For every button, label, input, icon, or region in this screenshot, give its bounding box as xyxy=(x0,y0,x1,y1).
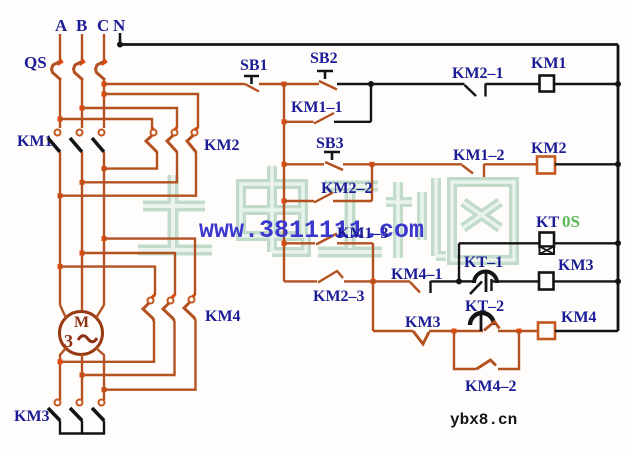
node mid rail KM2-3 xyxy=(371,279,376,284)
node crossover B xyxy=(80,180,85,185)
wire KT-2 to KM4 coil xyxy=(498,330,538,332)
svg-text:KM4: KM4 xyxy=(561,309,597,326)
wire SB1 to rail junction xyxy=(259,83,284,85)
node control feed tap xyxy=(102,82,107,87)
svg-text:SB1: SB1 xyxy=(240,57,268,74)
wire KM2 feed A xyxy=(60,119,152,128)
coil KM2 xyxy=(537,157,555,174)
svg-text:KM2: KM2 xyxy=(531,140,567,157)
node motor mid junction xyxy=(80,373,85,378)
contact KM2-1 xyxy=(465,84,486,97)
node KM2 feed tap C xyxy=(102,92,107,97)
contactor KM1 main pole 2 xyxy=(70,130,83,153)
node right rail row2 xyxy=(615,161,621,167)
motor terminal right xyxy=(96,305,104,318)
node KM4 feed tap A xyxy=(58,264,63,269)
wire mid rail corner to row4 xyxy=(373,330,413,332)
contactor KM1 main pole 3 xyxy=(92,130,105,153)
motor terminal left xyxy=(60,305,66,318)
wire column C middle xyxy=(103,152,105,305)
contactor KM4 main pole 2 xyxy=(163,295,175,322)
contactor KM1 main pole 1 xyxy=(48,130,61,153)
motor lead out mid xyxy=(81,355,83,401)
wire KM1 coil to right rail xyxy=(554,83,618,85)
wire KM2 feed C xyxy=(104,94,198,128)
node motor right junction xyxy=(102,387,107,392)
svg-text:SB3: SB3 xyxy=(316,135,344,152)
coil KM1 xyxy=(540,76,555,92)
node right rail KT row xyxy=(615,240,621,246)
wire column C upper xyxy=(103,80,105,128)
watermark green glyph 1 (tu) xyxy=(138,175,212,250)
contactor KM2 main pole 3 xyxy=(187,128,198,153)
wire control feed to SB1 xyxy=(104,83,245,85)
svg-text:ybx8.cn: ybx8.cn xyxy=(450,411,517,429)
contact KT-2 timed contact xyxy=(470,313,500,331)
svg-text:KM2–3: KM2–3 xyxy=(313,288,365,305)
wire KM1-1 branch vertical xyxy=(370,84,372,122)
contact KM4-1 xyxy=(373,281,431,293)
node rail KM1-3 xyxy=(282,241,287,246)
svg-text:KM1: KM1 xyxy=(531,55,567,72)
contactor KM4 main pole 3 xyxy=(184,295,196,321)
node rail KM2-2 xyxy=(282,199,287,204)
wire right N rail xyxy=(617,45,620,332)
contactor KM2 main pole 1 xyxy=(146,128,157,153)
wire column A middle xyxy=(59,152,61,305)
svg-text:KM4: KM4 xyxy=(205,308,241,325)
watermark green glyph 4 (zhi) xyxy=(386,178,446,258)
svg-text:KT: KT xyxy=(536,214,559,231)
watermark green glyph 2 (dian) xyxy=(241,166,306,252)
node KM4-2 branch left xyxy=(452,329,457,334)
wire KM2 coil to right rail xyxy=(555,163,618,165)
node rail KM1-1 xyxy=(282,119,287,124)
wire KM4 pole2 output xyxy=(82,321,175,375)
svg-text:B: B xyxy=(76,16,87,35)
wire column B upper xyxy=(81,80,83,128)
wire mid rail vertical xyxy=(372,243,374,331)
wire KM4 coil to right rail xyxy=(555,330,618,332)
switch QS pole 1 xyxy=(52,61,63,81)
wire top N rail xyxy=(120,43,618,46)
wire KT coil to right rail xyxy=(554,242,618,244)
contact KM2-3 xyxy=(284,271,373,283)
svg-text:KM2: KM2 xyxy=(204,137,240,154)
node right rail row1 xyxy=(615,81,621,87)
contact KM3 aux xyxy=(413,331,429,344)
svg-text:www.3811111.com: www.3811111.com xyxy=(199,216,424,245)
node KM4-2 branch right xyxy=(517,329,522,334)
svg-text:KM1–3: KM1–3 xyxy=(337,225,389,242)
wire KM2 pole2 output crossover to column B xyxy=(82,152,177,183)
contact KM1-3 xyxy=(284,234,373,245)
wire KM2 pole3 output crossover to column A xyxy=(60,152,196,196)
wire KM4-1 to KT branch xyxy=(431,280,460,282)
wire KM4 pole3 output xyxy=(104,320,196,390)
node left rail top xyxy=(282,82,287,87)
node crossover A xyxy=(58,193,63,198)
wire row2 to KM1-2 xyxy=(372,163,462,165)
wire left rail xyxy=(283,84,285,281)
node crossover C xyxy=(102,166,107,171)
wire KT branch vertical xyxy=(458,243,460,281)
wire KM2-2 branch vertical xyxy=(371,164,373,201)
motor M circle xyxy=(60,312,103,355)
wire rail to SB2 xyxy=(284,83,319,85)
wire KM3 aux to KT-2 xyxy=(429,330,483,332)
wire phase B lead-in xyxy=(81,34,83,60)
wire KT row xyxy=(459,242,540,244)
pushbutton SB3 xyxy=(324,152,343,170)
wire KM3 star bracket xyxy=(60,421,104,434)
svg-text:KM3: KM3 xyxy=(14,408,50,425)
wire KM1-2 to KM2 coil xyxy=(484,163,537,165)
wire SB2 to KM1-1 branch xyxy=(337,83,371,85)
node motor left junction xyxy=(58,359,63,364)
node KM2 feed tap A xyxy=(58,117,63,122)
wire KM3 coil to right rail xyxy=(554,280,619,282)
svg-text:KM3: KM3 xyxy=(405,314,441,331)
wire KM4 feed A xyxy=(60,267,155,295)
svg-text:KT–1: KT–1 xyxy=(464,254,503,271)
switch QS pole 3 xyxy=(96,61,107,81)
svg-text:M: M xyxy=(74,314,89,331)
switch QS pole 2 xyxy=(74,61,85,81)
node KT branch xyxy=(456,278,462,284)
node rail row2 xyxy=(282,162,287,167)
contact KT-1 timed contact xyxy=(459,271,539,295)
contact KM4-2 parallel branch xyxy=(454,331,519,369)
svg-text:KM3: KM3 xyxy=(558,257,594,274)
node KM4 feed tap C xyxy=(102,236,107,241)
node SB3 branch xyxy=(370,162,375,167)
node N corner dot xyxy=(117,42,123,48)
contact KM1-2 xyxy=(462,164,484,177)
wire rail to SB3 xyxy=(284,163,324,165)
svg-text:C: C xyxy=(97,16,109,35)
wire column A upper xyxy=(59,80,61,128)
coil KM3 xyxy=(539,273,554,290)
motor lead out left xyxy=(60,348,66,400)
pushbutton SB1 xyxy=(244,76,259,92)
motor lead out right xyxy=(96,348,104,400)
wire KM4 pole1 output xyxy=(61,321,154,362)
svg-text:KM4–2: KM4–2 xyxy=(465,378,517,395)
wire KM2-1 to KM1 coil xyxy=(486,83,540,85)
contactor KM3 main pole 1 xyxy=(48,400,61,421)
svg-text:QS: QS xyxy=(24,53,47,72)
wire KM2 pole1 output crossover to column C xyxy=(104,152,157,169)
svg-text:KM1–1: KM1–1 xyxy=(291,99,343,116)
node right rail KM3 row xyxy=(615,278,621,284)
timer coil KT xyxy=(540,233,555,255)
node SB2 branch xyxy=(368,81,374,87)
pushbutton SB2 xyxy=(317,71,337,90)
wire row1 to KM2-1 xyxy=(371,83,465,85)
svg-text:N: N xyxy=(113,16,126,35)
contactor KM3 main pole 2 xyxy=(70,400,83,421)
wire phase A lead-in xyxy=(59,34,61,60)
svg-text:KM1: KM1 xyxy=(17,133,53,150)
wire SB3 to KM2-2 branch xyxy=(343,163,372,165)
contact KM2-2 xyxy=(284,193,372,203)
svg-text:KM1–2: KM1–2 xyxy=(453,147,505,164)
wire KM4 feed C xyxy=(104,239,195,295)
contactor KM2 main pole 2 xyxy=(167,128,178,153)
node KM2 feed tap B xyxy=(80,106,85,111)
wire column B middle xyxy=(81,152,83,312)
watermark green glyph 3 (gong) xyxy=(318,186,382,252)
contact KM1-1 xyxy=(284,113,371,124)
motor sine symbol xyxy=(78,336,97,342)
watermark green glyph 5 (tu2) xyxy=(452,182,514,260)
wire neutral lead-in xyxy=(119,33,122,45)
contactor KM4 main pole 1 xyxy=(143,295,155,322)
svg-text:A: A xyxy=(55,16,68,35)
svg-text:SB2: SB2 xyxy=(310,50,338,67)
svg-text:KM2–1: KM2–1 xyxy=(452,65,504,82)
svg-text:0S: 0S xyxy=(562,212,580,231)
wire KM2 feed B xyxy=(82,108,177,128)
wire KM4 feed B xyxy=(82,253,175,295)
wire phase C lead-in xyxy=(103,34,105,60)
contactor KM3 main pole 3 xyxy=(92,400,105,421)
node KM4 feed tap B xyxy=(80,251,85,256)
coil KM4 xyxy=(538,323,555,340)
